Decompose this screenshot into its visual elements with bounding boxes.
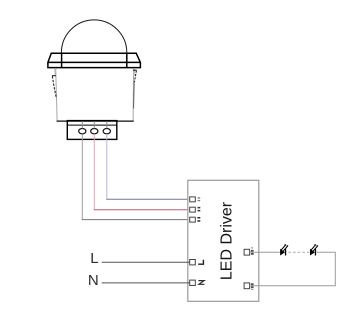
wire D2 to corner and return to LED- xyxy=(250,252,336,286)
driver terminal S (row1) xyxy=(190,197,196,202)
left clip xyxy=(52,76,56,98)
sensor body right wall dark segment xyxy=(133,82,136,109)
left wall upper stub xyxy=(54,68,56,76)
terminal pin 3 (oval) xyxy=(103,129,110,134)
wire red vertical: sensor pin2 down xyxy=(93,134,95,210)
label LED+ xyxy=(251,247,254,254)
label Ni xyxy=(198,207,201,212)
wire N xyxy=(102,282,190,284)
label L (rotated) xyxy=(198,260,203,265)
sensor connector block xyxy=(67,121,117,140)
svg-text:N: N xyxy=(88,272,99,289)
sensor cap xyxy=(48,53,140,67)
pin 1 upper stub xyxy=(81,121,83,128)
pin 3 upper stub xyxy=(106,121,108,128)
label S xyxy=(198,197,201,201)
sensor dome xyxy=(61,20,126,53)
label N (rotated) xyxy=(198,281,204,285)
driver terminal LED+ xyxy=(244,249,250,255)
svg-text:LED Driver: LED Driver xyxy=(219,201,236,280)
driver terminal L xyxy=(190,260,196,265)
svg-text:L: L xyxy=(90,250,98,267)
LED D2 xyxy=(310,244,318,256)
right clip xyxy=(133,70,137,82)
terminal pin 2 (oval) xyxy=(91,129,98,134)
label Li xyxy=(197,217,200,222)
dashed wire between D1 and D2 xyxy=(288,251,309,253)
driver terminal LED- xyxy=(244,283,250,289)
wire red horizontal: to driver terminal 2 xyxy=(94,209,190,211)
label LED- xyxy=(251,283,254,290)
wire gray vertical: sensor pin1 down xyxy=(81,134,83,220)
connector inner line xyxy=(67,124,117,126)
pin 2 upper stub xyxy=(93,121,95,128)
sensor body right wall xyxy=(132,68,135,120)
wire L xyxy=(102,261,190,263)
wire gray horizontal: to driver terminal 3 xyxy=(82,219,190,221)
wire blue horizontal: to driver terminal 1 xyxy=(106,198,189,200)
driver terminal L-in (row3) xyxy=(190,217,196,222)
sensor body left wall xyxy=(56,68,57,120)
LED Driver box xyxy=(188,180,259,301)
terminal pin 1 (oval) xyxy=(79,129,86,134)
right wall upper stub xyxy=(133,68,135,76)
wire LED+ to D1 xyxy=(250,251,280,253)
driver terminal N xyxy=(190,280,196,285)
wire blue vertical: sensor pin3 down xyxy=(106,134,108,199)
LED D1 xyxy=(280,244,288,256)
driver terminal N-in (row2) xyxy=(190,207,196,212)
sensor body bottom edge xyxy=(57,120,134,122)
